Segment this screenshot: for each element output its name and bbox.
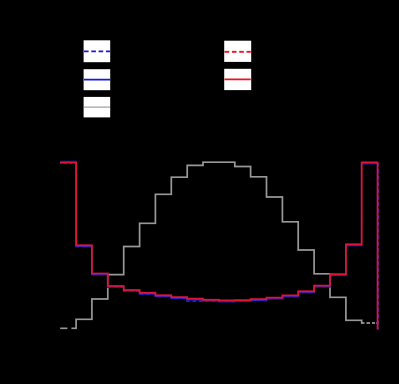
blue dashed histogram: visible dashes at curve bottom center (186, 300, 250, 302)
legend swatch box: blue dashed entry (84, 40, 111, 62)
dash gaps over gray first bin (faint dashed look) (67, 327, 71, 329)
legend swatch box: red solid entry (224, 69, 251, 90)
legend line: blue dashed (84, 50, 110, 52)
legend swatch box: blue solid entry (84, 69, 111, 90)
dash gaps over gray last bin (faint dashed look) (365, 322, 377, 324)
blue dashed step histogram (mostly hidden under red) (60, 163, 378, 330)
red dashed histogram notches over first red bin (62, 163, 76, 165)
red solid step histogram (U-shaped) (60, 162, 377, 329)
blue solid step histogram (peeks out under/above red) (60, 162, 377, 330)
legend swatch box: gray solid entry (84, 97, 111, 118)
legend swatch box: red dashed entry (224, 41, 251, 62)
gray bell-shaped step histogram (60, 162, 377, 328)
legend line: red solid (225, 78, 251, 80)
legend line: gray solid (84, 106, 110, 108)
legend line: red dashed (225, 51, 251, 53)
legend line: blue solid (84, 79, 110, 81)
